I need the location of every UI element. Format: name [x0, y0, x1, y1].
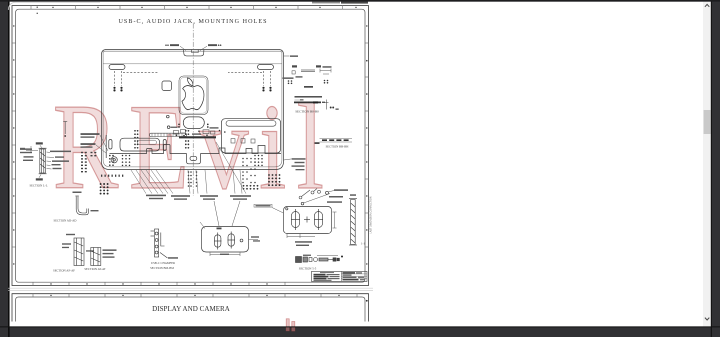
- B0 bracket pair: [292, 65, 321, 67]
- below-case grid left: [100, 183, 109, 195]
- svg-text:SECTION AD-AD: SECTION AD-AD: [54, 219, 78, 223]
- svg-text:SECTION AF-AF: SECTION AF-AF: [53, 269, 75, 273]
- assembly top dim: [317, 255, 338, 257]
- hinge inner line: [103, 63, 282, 65]
- left black separation line: [8, 0, 10, 337]
- top-right slot: [258, 65, 274, 70]
- svg-text:DISPLAY AND CAMERA: DISPLAY AND CAMERA: [152, 305, 230, 313]
- section L-L bar: [39, 148, 47, 174]
- detail AG rect: [91, 248, 101, 266]
- right-of-case leader: [284, 159, 292, 160]
- page 1 bottom paper edge: [8, 287, 373, 289]
- mini slot vertical: [163, 140, 166, 151]
- tongue dot columns: [188, 171, 198, 187]
- top dark band: [0, 0, 720, 2]
- scrollbar thumb: [704, 110, 711, 134]
- scrollbar down arrow: [705, 318, 709, 320]
- sheet frame outer border: [12, 6, 369, 286]
- top dim leaders: [180, 46, 186, 50]
- stack2 dots: [288, 80, 329, 84]
- detail F labels: [217, 228, 261, 256]
- svg-text:SECTION AT-AT: SECTION AT-AT: [84, 267, 105, 271]
- case inner wall: [103, 51, 282, 167]
- hatch bar: [349, 199, 357, 245]
- detail G bottom dims: [287, 234, 315, 239]
- title block top dot: [341, 256, 343, 258]
- detail G plate: [284, 191, 332, 233]
- mid-right circles row: [299, 189, 320, 199]
- REvil watermark page 1: [53, 80, 335, 216]
- inner wall vertical left: [105, 135, 107, 158]
- platform inner rects: [231, 139, 255, 143]
- svg-text:SECTION 5-5: SECTION 5-5: [299, 266, 317, 270]
- page 2 right zone dot: [366, 300, 368, 302]
- right plate bar 2: [294, 101, 321, 103]
- svg-text:1-1: 1-1: [361, 242, 365, 246]
- right plate dots: [330, 107, 332, 109]
- right vent platform: [222, 119, 281, 153]
- top-left border dots: [37, 7, 38, 8]
- svg-text:USB-C CHAMFER: USB-C CHAMFER: [151, 261, 175, 265]
- AD arrow labels: [36, 142, 43, 180]
- detail AF rect: [74, 238, 84, 266]
- page 2 watermark tip: [286, 319, 295, 331]
- page 2 frame outer: [12, 294, 369, 322]
- detail F plate: [202, 227, 249, 253]
- left cluster label rows: [81, 133, 100, 148]
- page 2 top paper edge: [8, 290, 373, 292]
- paper top-left rounded edge: [8, 2, 100, 10]
- bottom label row 3: [200, 195, 218, 200]
- tongue oval: [190, 156, 197, 160]
- trackpad oval: [183, 117, 204, 129]
- header tiny text top right: [312, 1, 368, 3]
- upper slot row: [150, 133, 187, 136]
- title block: [312, 271, 368, 281]
- B0 dim arrows: [320, 69, 331, 75]
- svg-text:REvil: REvil: [53, 80, 335, 216]
- bottom label row 2: [171, 195, 190, 200]
- scrollbar up arrow: [705, 4, 709, 6]
- zone ticks top: [31, 6, 343, 10]
- dot columns left pair: [134, 130, 138, 149]
- left pair marks column: [81, 152, 96, 173]
- screw leader dashes top-right: [228, 71, 271, 86]
- right plate bar 1: [295, 96, 323, 98]
- screw assembly: [296, 257, 340, 263]
- AG labels: [103, 249, 117, 257]
- right plate bracket: [325, 100, 329, 110]
- screw dots top-right: [262, 87, 271, 92]
- port label smudges: [171, 127, 219, 135]
- stack2 text rows: [283, 76, 314, 88]
- screw dots top-left: [113, 87, 122, 92]
- B0 dim text: [323, 66, 332, 68]
- centerline main: [192, 24, 194, 197]
- svg-text:LAST DIMENSION CORRECTION: LAST DIMENSION CORRECTION: [370, 196, 373, 233]
- oval side dots: [178, 124, 209, 128]
- svg-text:SECTION L-L: SECTION L-L: [29, 184, 47, 188]
- svg-text:SECTION BM-BM: SECTION BM-BM: [150, 266, 174, 270]
- small circle b: [167, 126, 170, 129]
- zone ticks left: [12, 43, 16, 247]
- left wall stadium: [109, 140, 112, 150]
- detail G right bracket: [333, 212, 337, 228]
- right-of-case label rows: [292, 158, 306, 170]
- bottom label row 1: [146, 195, 166, 200]
- tiny mark row: [101, 175, 123, 177]
- right top leader label: [290, 55, 298, 57]
- top dim smudges: [165, 44, 221, 46]
- hatch bar top mark: [350, 194, 356, 196]
- port connector bar: [179, 136, 216, 138]
- usb-c leader label: [168, 257, 178, 259]
- apple logo: [182, 78, 204, 110]
- right plate thin line: [295, 99, 303, 101]
- BH ruler: [315, 139, 353, 145]
- zone dots right: [366, 25, 368, 264]
- J-hook detail: [75, 196, 88, 215]
- bottom dark edge line: [0, 326, 720, 328]
- usb-c chamfer bar: [151, 229, 168, 258]
- vent inner slot: [226, 121, 276, 127]
- detail G labels: [254, 189, 348, 246]
- page 2 zone ticks: [33, 294, 357, 297]
- logo recess: [179, 76, 208, 115]
- dot columns mid pair: [185, 130, 189, 149]
- corner dots left inner: [109, 155, 114, 166]
- detail F dims: [200, 201, 258, 256]
- J-hook dims: [73, 192, 99, 212]
- left platform inner slot: [138, 140, 157, 144]
- detail G leaders: [272, 191, 334, 214]
- svg-text:SECTION BH-BH: SECTION BH-BH: [326, 144, 350, 148]
- section L-L dims: [26, 145, 54, 178]
- bottom label row 4: [230, 195, 251, 200]
- L-L leader text rows: [20, 148, 71, 169]
- svg-text:SECTION B0-B0: SECTION B0-B0: [295, 110, 319, 114]
- case outline: [102, 50, 284, 170]
- center tongue: [187, 154, 201, 164]
- board square: [162, 81, 172, 91]
- top-left slot: [109, 65, 125, 70]
- screw leader dashes top-left: [115, 71, 159, 86]
- corner hook left: [111, 157, 117, 163]
- scrollbar track: [703, 2, 711, 327]
- port circles: [176, 130, 226, 137]
- right dot columns: [242, 158, 258, 190]
- below-case grid right: [268, 174, 280, 186]
- speaker dots right: [254, 155, 263, 166]
- port small rects: [174, 130, 215, 135]
- B0 plates lines: [301, 70, 315, 72]
- zone dots top: [52, 7, 356, 8]
- speaker dots left: [122, 155, 131, 166]
- zone ticks bottom: [33, 282, 285, 285]
- AF labels: [62, 234, 94, 252]
- B0 small square: [292, 71, 295, 74]
- leader fan bottom: [131, 142, 246, 194]
- zone dots bottom: [50, 283, 267, 284]
- page 2 zone dots: [50, 295, 339, 296]
- margin cluster rows: [20, 148, 33, 161]
- sheet frame inner border: [16, 9, 365, 282]
- left platform: [120, 138, 160, 151]
- bottom inner wall: [110, 145, 282, 154]
- left detached fastener: [63, 122, 67, 135]
- page 2 frame inner: [16, 297, 365, 322]
- right dark edge line: [710, 0, 712, 337]
- small circle a: [167, 115, 170, 118]
- zone dots left: [13, 25, 14, 264]
- zone ticks right: [365, 43, 369, 247]
- left cluster leaders: [96, 135, 108, 153]
